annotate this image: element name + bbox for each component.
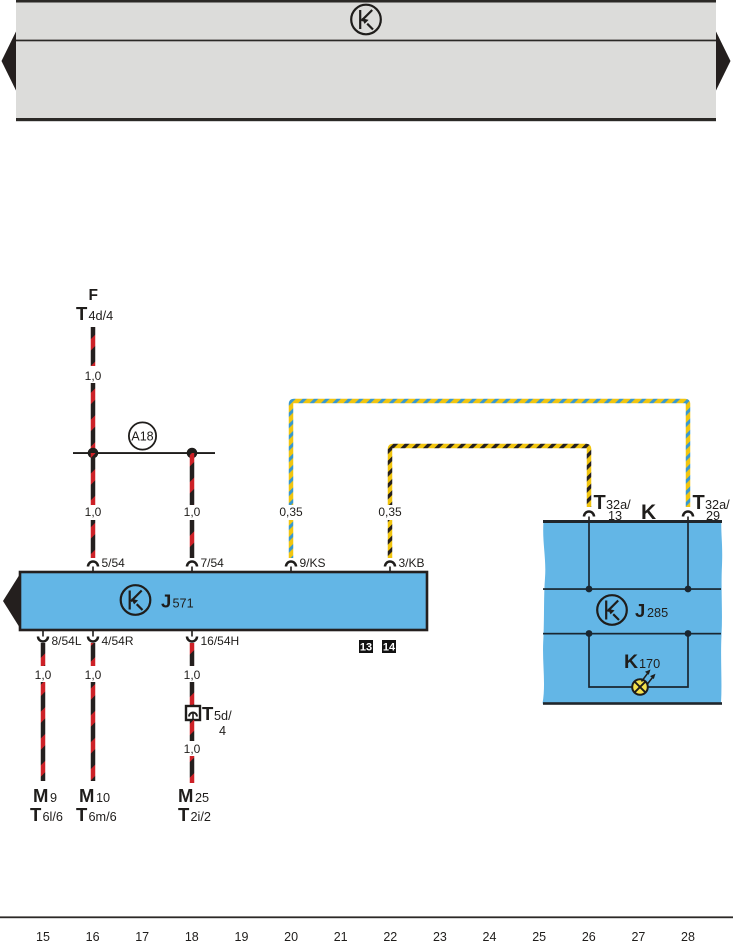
lamp emission arrow 2	[647, 678, 653, 685]
svg-text:13: 13	[360, 642, 372, 654]
svg-text:9/KS: 9/KS	[300, 556, 326, 570]
svg-text:2i/2: 2i/2	[191, 810, 211, 824]
svg-text:T: T	[202, 703, 214, 724]
header left arrow	[2, 32, 17, 91]
svg-text:1,0: 1,0	[85, 369, 102, 383]
junction dot	[586, 586, 593, 593]
wire yellow/blue from 9/KS long run to T32a/29	[291, 401, 688, 507]
svg-text:1,0: 1,0	[184, 505, 201, 519]
svg-text:M: M	[33, 785, 48, 806]
node A18 circle	[129, 422, 156, 449]
svg-text:25: 25	[532, 930, 546, 944]
wire red/black to 7/54 lower segment	[190, 520, 195, 558]
svg-text:0,35: 0,35	[378, 505, 402, 519]
wire red/black to 5/54 upper segment	[91, 453, 96, 505]
svg-text:19: 19	[235, 930, 249, 944]
svg-text:M: M	[79, 785, 94, 806]
svg-text:5d/: 5d/	[214, 709, 232, 723]
svg-text:5/54: 5/54	[102, 556, 126, 570]
wire red/black to 7/54 upper segment	[190, 453, 195, 505]
terminal 16/54H	[191, 631, 193, 637]
wire yellow/blue from 9/KS lower segment	[289, 520, 294, 558]
wire red/black below T5d segment	[190, 720, 195, 741]
wire red/black lowest segment track 18	[190, 756, 195, 783]
relay symbol K in circle of J571	[121, 585, 151, 615]
relay symbol K in circle of J285	[597, 595, 627, 625]
junction dot	[586, 630, 593, 637]
wire red/black from 8/54L upper segment	[41, 643, 46, 666]
wire red/black from 8/54L lower segment	[41, 682, 46, 781]
terminal 3/KB	[385, 562, 395, 567]
junction dot left	[88, 448, 99, 459]
junction dot	[685, 630, 692, 637]
svg-text:1,0: 1,0	[85, 505, 102, 519]
wire red/black from 16/54H middle segment	[190, 682, 195, 706]
instrument cluster blue torn panel	[543, 522, 723, 704]
svg-text:28: 28	[681, 930, 695, 944]
connector terminal T32a/29	[683, 512, 693, 517]
wire red/black to 5/54 lower segment	[91, 520, 96, 558]
svg-text:26: 26	[582, 930, 596, 944]
svg-text:6l/6: 6l/6	[43, 810, 63, 824]
wire inside panel from T32a/29	[687, 522, 689, 589]
lamp circuit wire loop	[589, 634, 688, 688]
svg-text:4/54R: 4/54R	[102, 634, 134, 648]
svg-text:F: F	[89, 287, 98, 304]
wire red/black from 16/54H upper segment	[190, 643, 195, 666]
svg-text:T: T	[693, 492, 705, 514]
svg-text:T: T	[594, 492, 606, 514]
svg-text:8/54L: 8/54L	[52, 634, 82, 648]
panel top border line	[543, 520, 722, 523]
junction dot	[685, 586, 692, 593]
svg-text:170: 170	[639, 657, 660, 671]
current track ref square 14	[382, 640, 396, 653]
panel inner line lower	[543, 633, 721, 635]
terminal 7/54	[187, 562, 197, 567]
svg-text:T: T	[30, 804, 42, 825]
terminal 8/54L	[42, 631, 44, 637]
svg-text:1,0: 1,0	[184, 668, 201, 682]
svg-text:10: 10	[96, 791, 110, 805]
svg-text:21: 21	[334, 930, 348, 944]
svg-text:14: 14	[383, 642, 396, 654]
svg-text:K: K	[624, 651, 638, 673]
svg-text:1,0: 1,0	[184, 742, 201, 756]
svg-text:7/54: 7/54	[201, 556, 225, 570]
svg-text:16/54H: 16/54H	[201, 634, 240, 648]
current track ref square 13	[359, 640, 373, 653]
svg-text:M: M	[178, 785, 193, 806]
svg-text:4d/4: 4d/4	[89, 309, 114, 323]
svg-text:16: 16	[86, 930, 100, 944]
svg-text:571: 571	[173, 597, 194, 611]
svg-text:18: 18	[185, 930, 199, 944]
svg-text:4: 4	[219, 724, 226, 738]
wire red/black from fuse, lower segment	[91, 383, 96, 453]
terminal 5/54	[88, 562, 98, 567]
header lower gray strip	[16, 41, 716, 118]
wire red/black from 4/54R lower segment	[91, 682, 96, 781]
warning lamp K170 symbol	[632, 679, 648, 695]
junction dot right	[187, 448, 198, 459]
header top border line	[16, 0, 716, 3]
connector terminal T32a/13	[584, 512, 594, 517]
header right arrow	[716, 32, 731, 91]
svg-text:J: J	[635, 600, 645, 621]
svg-text:1,0: 1,0	[85, 668, 102, 682]
header bottom border line	[16, 118, 716, 121]
svg-text:A18: A18	[131, 430, 153, 444]
svg-text:1,0: 1,0	[35, 668, 52, 682]
svg-text:27: 27	[631, 930, 645, 944]
terminal 9/KS	[286, 562, 296, 567]
svg-text:23: 23	[433, 930, 447, 944]
svg-text:17: 17	[135, 930, 149, 944]
header relay symbol K in circle	[351, 5, 381, 35]
wire horizontal bus of node A18	[73, 452, 215, 454]
svg-text:T: T	[76, 303, 88, 324]
control unit J571 left arrow	[3, 576, 19, 627]
wire red/black from 4/54R upper segment	[91, 643, 96, 666]
svg-text:24: 24	[483, 930, 497, 944]
wire yellow/black from 3/KB lower segment	[388, 520, 393, 558]
svg-text:25: 25	[195, 791, 209, 805]
svg-text:J: J	[161, 591, 171, 612]
svg-text:T: T	[76, 804, 88, 825]
control unit J571 box	[20, 572, 427, 630]
wire yellow/black run to T32a/13	[390, 446, 589, 507]
svg-text:6m/6: 6m/6	[89, 810, 117, 824]
svg-text:22: 22	[383, 930, 397, 944]
header divider line	[16, 40, 716, 42]
wire red/black from fuse, upper segment	[91, 327, 96, 366]
lamp emission arrow 1	[642, 674, 648, 682]
bottom rule line	[0, 916, 733, 918]
svg-text:0,35: 0,35	[279, 505, 303, 519]
svg-text:15: 15	[36, 930, 50, 944]
svg-text:9: 9	[50, 791, 57, 805]
svg-text:3/KB: 3/KB	[399, 556, 425, 570]
svg-text:T: T	[178, 804, 190, 825]
svg-text:20: 20	[284, 930, 298, 944]
wire inside panel from T32a/13	[588, 522, 590, 589]
connector T5d/4 square symbol	[186, 706, 200, 720]
panel inner line upper	[543, 588, 721, 590]
terminal 4/54R	[92, 631, 94, 637]
header upper gray strip	[16, 3, 716, 40]
svg-text:285: 285	[647, 606, 668, 620]
panel bottom border line	[543, 702, 722, 705]
